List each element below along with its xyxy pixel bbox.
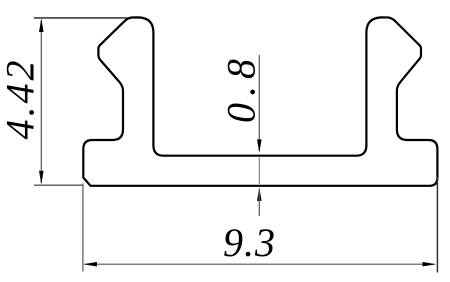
dim 4.42: arrow up	[39, 19, 44, 33]
dim 9.3: right extension line	[436, 177, 438, 273]
dim 4.42: top extension line	[34, 17, 128, 19]
dim 0.8: arrow down at floor	[257, 139, 262, 153]
dim 0.8: arrow up at bottom	[257, 187, 262, 201]
svg-text:4.42: 4.42	[0, 58, 43, 140]
dim 4.42: dimension line	[40, 20, 42, 183]
svg-text:9.3: 9.3	[223, 220, 276, 265]
profile outline (aluminium channel cross-section)	[83, 17, 437, 185]
dim 9.3: dimension line	[85, 263, 435, 265]
dim 9.3: arrow left	[83, 262, 97, 267]
dim 0.8: through-base leader	[258, 158, 260, 185]
dim 9.3: arrow right	[423, 262, 437, 267]
svg-text:0.8: 0.8	[219, 52, 264, 123]
dim 4.42: bottom extension line	[34, 184, 83, 186]
dim 0.8: upper leader	[258, 55, 260, 151]
dim 9.3: left extension line	[82, 184, 84, 272]
dim 4.42: arrow down	[39, 171, 44, 185]
dim 0.8: lower leader	[258, 189, 260, 216]
